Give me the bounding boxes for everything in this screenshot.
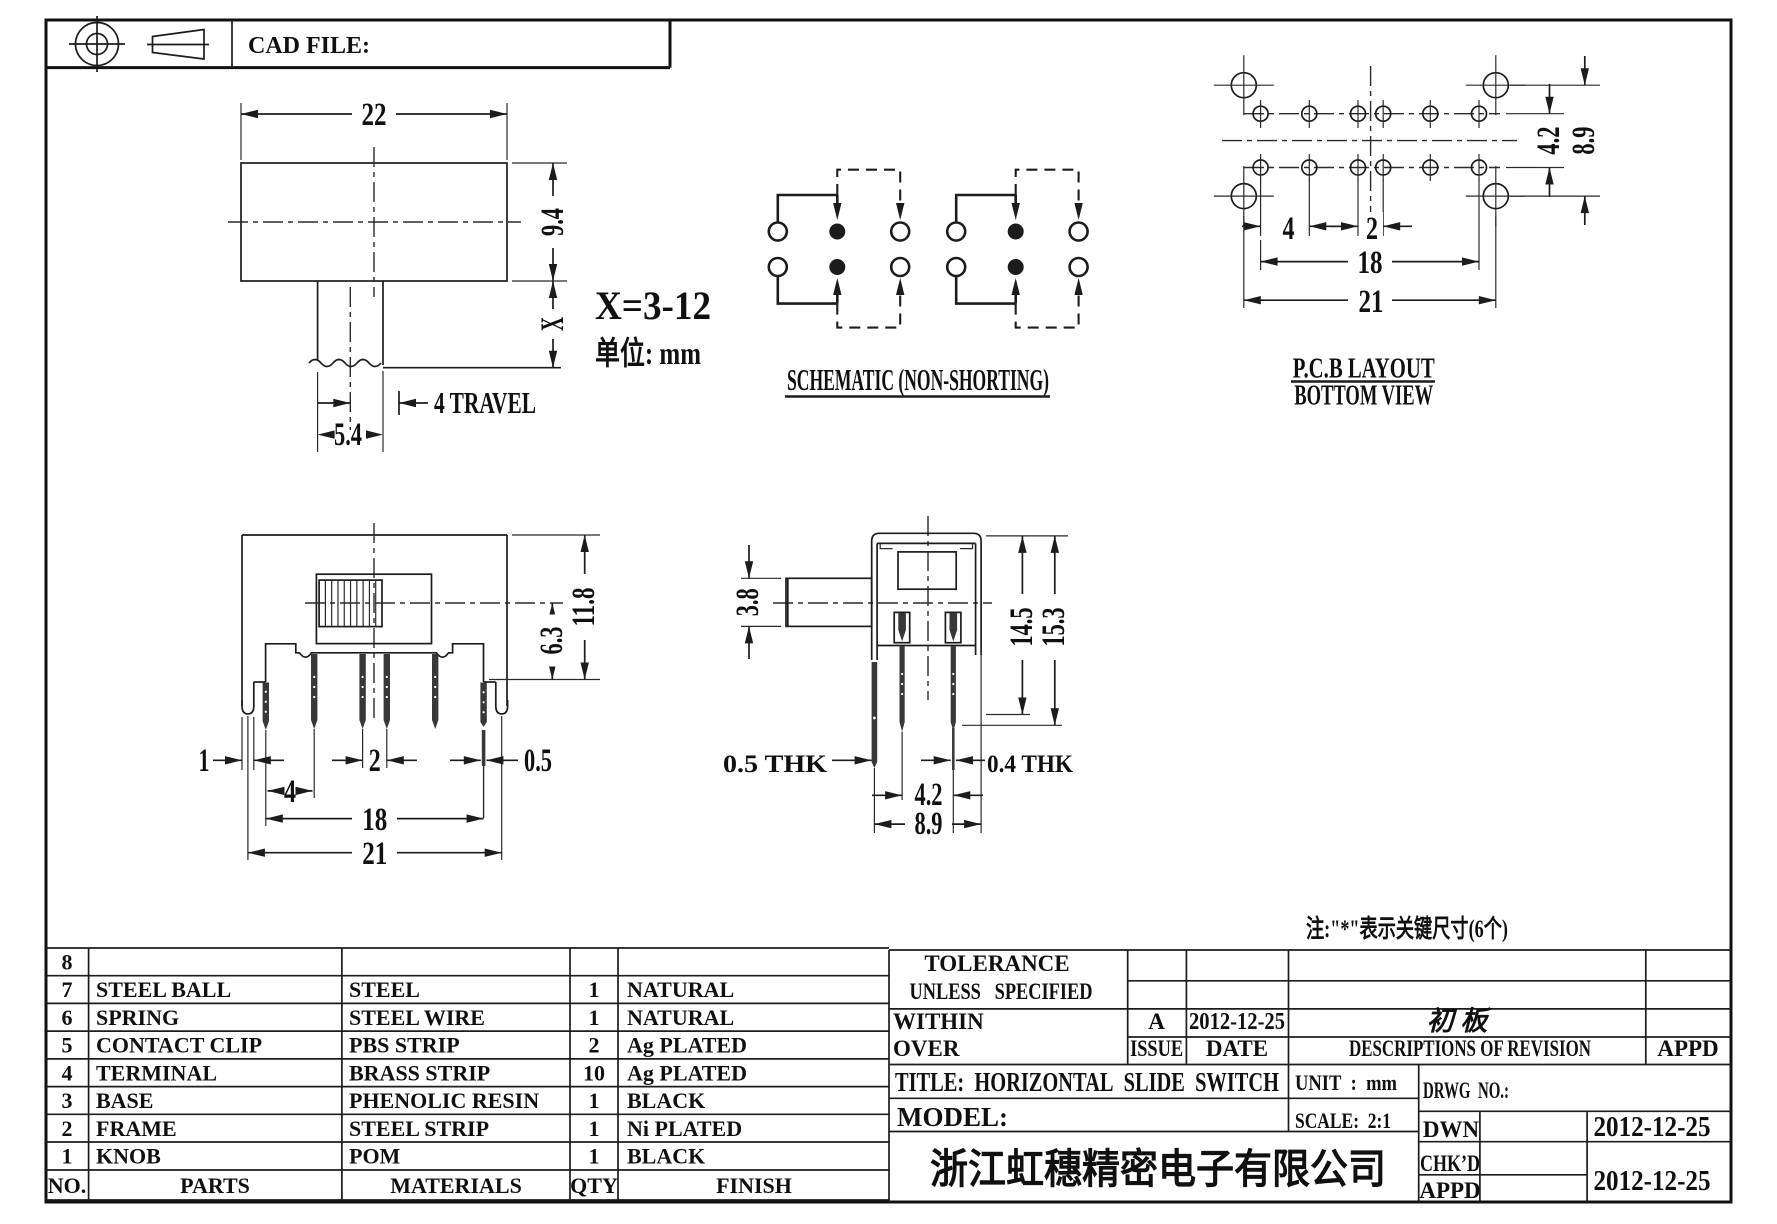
dim 5.4 line <box>318 430 335 438</box>
dim 22 line with arrows <box>241 113 507 115</box>
front view dim 4 arrows <box>268 787 285 795</box>
svg-text:PHENOLIC RESIN: PHENOLIC RESIN <box>349 1088 539 1113</box>
schematic pole: open contact circles <box>947 223 965 241</box>
top view: stem centerline <box>349 287 351 430</box>
front view dim 0.5 arrows <box>450 759 481 761</box>
front view dim 11.8 extension line <box>512 534 600 536</box>
pcb: horizontal centerline <box>1222 140 1517 142</box>
svg-text:APPD: APPD <box>1657 1036 1718 1061</box>
svg-text:3.8: 3.8 <box>730 588 766 616</box>
front view dim 21 line <box>248 852 502 854</box>
svg-text:OVER: OVER <box>893 1036 960 1061</box>
svg-text:1: 1 <box>589 1116 600 1141</box>
svg-text:QTY: QTY <box>570 1173 618 1198</box>
front view dim 1 arrows <box>213 759 242 761</box>
svg-text:BLACK: BLACK <box>627 1144 705 1169</box>
side view: contact clip housing left <box>894 612 910 642</box>
svg-text:1: 1 <box>589 1005 600 1030</box>
side view: extension lines below <box>873 768 875 833</box>
svg-text:SCALE: 2:1: SCALE: 2:1 <box>1295 1108 1391 1133</box>
pcb dim 2 label <box>1362 212 1383 238</box>
third-angle projection symbol <box>76 23 119 66</box>
0.4 THK note <box>921 759 951 761</box>
front view: metal frame profile <box>266 644 484 682</box>
pcb dim 18 extension lines <box>1260 240 1262 270</box>
schematic pole: common contacts (filled) <box>1008 224 1024 240</box>
pcb: hole row centerlines <box>1244 113 1500 115</box>
side view: right terminal (0.4 THK) <box>951 646 956 731</box>
front view: terminal pin 1 <box>263 683 269 731</box>
svg-text:2: 2 <box>62 1116 73 1141</box>
front view: left lug <box>242 682 254 714</box>
pcb dim 4.2 extension lines <box>1506 113 1564 115</box>
svg-text:1: 1 <box>199 743 210 779</box>
pcb dim 4 extension lines <box>1260 180 1262 236</box>
side view: middle terminal (0.4 THK) <box>900 646 905 732</box>
svg-text:STEEL BALL: STEEL BALL <box>96 977 231 1002</box>
schematic pole: closed position wire (top) <box>778 195 838 222</box>
schematic pole: closed position wire (bottom) <box>778 277 838 304</box>
schematic pole: open position wire dashed (bottom) <box>1016 294 1079 328</box>
svg-text:4: 4 <box>62 1060 73 1085</box>
svg-text:STEEL WIRE: STEEL WIRE <box>349 1005 485 1030</box>
dim 4.2 arrows (side view) <box>872 794 902 796</box>
front view: terminal pin 6 (long) <box>480 683 486 728</box>
svg-text:9.4: 9.4 <box>535 208 571 236</box>
svg-text:DESCRIPTIONS OF REVISION: DESCRIPTIONS OF REVISION <box>1349 1036 1591 1061</box>
side view: inner corner step left <box>880 543 892 548</box>
svg-text:SPRING: SPRING <box>96 1005 179 1030</box>
svg-text:DATE: DATE <box>1206 1036 1268 1061</box>
front view dim 6.3 extension line <box>489 679 600 681</box>
svg-text:MODEL:: MODEL: <box>897 1102 1008 1132</box>
front view: actuator body <box>316 574 431 643</box>
dim 5.4 extension lines <box>317 372 319 452</box>
top view: horizontal centerline <box>228 221 521 223</box>
dim 15.3 extension line bottom <box>962 724 1062 726</box>
svg-text:0.5: 0.5 <box>524 743 552 779</box>
side view: frame inner wall left <box>876 543 878 660</box>
pcb: terminal holes row 2 <box>1253 160 1268 175</box>
pcb: terminal holes row 1 <box>1253 106 1268 121</box>
svg-text:STEEL STRIP: STEEL STRIP <box>349 1116 489 1141</box>
side view: frame inner top <box>877 542 976 544</box>
front view: vertical centerline <box>373 523 375 722</box>
pcb: vertical centerline <box>1370 66 1372 212</box>
front view dim 18 line <box>266 818 484 820</box>
svg-text:BOTTOM VIEW: BOTTOM VIEW <box>1294 380 1433 412</box>
front view: outline top <box>242 534 507 536</box>
front view: terminal pin 4 <box>384 654 390 729</box>
svg-text:TERMINAL: TERMINAL <box>96 1060 217 1085</box>
svg-text:BRASS STRIP: BRASS STRIP <box>349 1060 490 1085</box>
svg-text:4.2: 4.2 <box>1531 127 1567 155</box>
front view: horizontal centerline <box>305 602 563 604</box>
front view: terminal pin 2 <box>311 654 317 729</box>
svg-text:X=3-12: X=3-12 <box>595 283 711 328</box>
side view: frame inner wall right <box>975 543 977 655</box>
svg-text:18: 18 <box>1358 245 1383 281</box>
dim X line <box>552 281 554 368</box>
svg-text:NO.: NO. <box>48 1173 87 1198</box>
svg-text:FRAME: FRAME <box>96 1116 177 1141</box>
svg-text:STEEL: STEEL <box>349 977 420 1002</box>
svg-text:UNIT : mm: UNIT : mm <box>1295 1070 1397 1095</box>
front view: outline left side merging into mounting lug <box>241 535 243 706</box>
schematic pole: open position wire dashed (bottom) <box>837 294 900 328</box>
svg-text:10: 10 <box>583 1060 605 1085</box>
front view dim 2 arrows <box>332 759 363 761</box>
top view: stem right edge <box>382 281 384 365</box>
svg-text:PARTS: PARTS <box>180 1173 250 1198</box>
schematic pole: closed position wire (bottom) <box>956 277 1016 304</box>
svg-text:BLACK: BLACK <box>627 1088 705 1113</box>
svg-text:CONTACT CLIP: CONTACT CLIP <box>96 1033 262 1058</box>
front view dim 6.3 line <box>551 603 553 680</box>
dim 3.8 arrows <box>748 545 750 578</box>
schematic pole: open position wire dashed (top) <box>1016 170 1079 204</box>
svg-text:22: 22 <box>362 97 387 133</box>
extension line at stem break bottom <box>383 367 561 369</box>
dim 9.4 line <box>552 163 554 281</box>
dim 9.4 extension lines <box>512 162 567 164</box>
svg-text:Ni PLATED: Ni PLATED <box>627 1116 742 1141</box>
svg-text:初 板: 初 板 <box>1427 1006 1492 1036</box>
dim 14.5 extension line top <box>986 535 1068 537</box>
svg-text:DWN: DWN <box>1423 1117 1480 1142</box>
svg-text:2: 2 <box>1366 211 1378 247</box>
title block grid <box>889 1097 1419 1099</box>
svg-text:TOLERANCE: TOLERANCE <box>924 951 1069 976</box>
svg-text:NATURAL: NATURAL <box>627 977 734 1002</box>
svg-text:NATURAL: NATURAL <box>627 1005 734 1030</box>
pcb: mounting holes with crosshairs <box>1231 73 1256 98</box>
svg-text:4 TRAVEL: 4 TRAVEL <box>434 385 536 420</box>
projection cone symbol <box>153 30 205 60</box>
svg-text:Ag PLATED: Ag PLATED <box>627 1033 747 1058</box>
pcb dim 8.9 arrows <box>1584 56 1586 85</box>
dim 14.5 line <box>1021 536 1023 715</box>
title header box (CAD FILE) <box>46 66 670 69</box>
svg-text:18: 18 <box>362 802 387 838</box>
side view: contact clip housing right <box>945 612 961 642</box>
svg-text:BASE: BASE <box>96 1088 153 1113</box>
pcb dim 2 extension lines <box>1357 180 1359 236</box>
svg-text:SCHEMATIC (NON-SHORTING): SCHEMATIC (NON-SHORTING) <box>787 362 1049 397</box>
svg-text:14.5: 14.5 <box>1004 608 1040 647</box>
schematic pole: open position wire dashed (top) <box>837 170 900 204</box>
pcb dim 18 line <box>1261 261 1479 263</box>
pcb dim 8.9 extension lines <box>1510 84 1600 86</box>
svg-text:5: 5 <box>62 1033 73 1058</box>
svg-text:MATERIALS: MATERIALS <box>390 1173 522 1198</box>
side view: knob stem <box>786 578 872 626</box>
svg-text:FINISH: FINISH <box>716 1173 792 1198</box>
svg-text:8.9: 8.9 <box>1566 127 1602 155</box>
top view: break (wavy) line <box>309 360 381 367</box>
pcb dim 21 line <box>1244 299 1496 301</box>
side view: right wall lower edge <box>980 655 982 715</box>
svg-text:11.8: 11.8 <box>566 588 602 627</box>
svg-text:X: X <box>535 317 571 331</box>
dim 3.8 extension lines <box>741 577 781 579</box>
svg-text:TITLE: HORIZONTAL SLIDE SWI: TITLE: HORIZONTAL SLIDE SWITCH <box>895 1067 1279 1097</box>
front view: knurled knob <box>319 580 382 627</box>
front view: right lug <box>496 682 508 714</box>
front view: left lug step <box>254 681 266 683</box>
dim 15.3 line <box>1054 536 1056 725</box>
svg-text:3: 3 <box>62 1088 73 1113</box>
svg-text:2: 2 <box>589 1033 600 1058</box>
svg-text:ISSUE: ISSUE <box>1130 1036 1183 1061</box>
svg-text:KNOB: KNOB <box>96 1144 161 1169</box>
dim 8.9 line (side view) <box>874 823 981 825</box>
front view dim 11.8 line <box>584 535 586 680</box>
svg-text:2: 2 <box>369 743 381 779</box>
svg-text:UNLESS SPECIFIED: UNLESS SPECIFIED <box>910 979 1093 1004</box>
side view: horizontal centerline <box>773 602 992 604</box>
svg-text:2012-12-25: 2012-12-25 <box>1189 1009 1285 1035</box>
svg-text:4: 4 <box>284 774 296 810</box>
svg-text:15.3: 15.3 <box>1036 608 1072 647</box>
top view: stem left edge <box>317 281 319 360</box>
svg-text:APPD: APPD <box>1419 1178 1480 1203</box>
svg-text:1: 1 <box>62 1144 73 1169</box>
svg-text:1: 1 <box>589 1144 600 1169</box>
dim 22 extension lines <box>240 103 242 160</box>
front view: right lug step <box>484 681 496 683</box>
pcb dim 21 extension lines <box>1243 216 1245 308</box>
side view: contact pin inside right housing <box>950 613 958 642</box>
svg-text:8: 8 <box>62 950 73 975</box>
svg-text:8.9: 8.9 <box>915 806 943 842</box>
svg-text:CAD FILE:: CAD FILE: <box>248 33 370 59</box>
pcb dim 2 arrows <box>1330 225 1358 227</box>
svg-text:21: 21 <box>362 836 387 872</box>
pcb dim 4.2 label <box>1536 115 1564 167</box>
top view: vertical centerline <box>373 147 375 297</box>
top view: knob body rectangle <box>241 163 507 281</box>
pcb dim 4 arrows <box>1242 225 1261 227</box>
front view: outline right side <box>506 535 508 706</box>
side view: frame outer shell <box>872 533 981 660</box>
4 TRAVEL dimension <box>318 402 350 404</box>
svg-text:0.4 THK: 0.4 THK <box>987 751 1074 778</box>
svg-text:A: A <box>1148 1009 1165 1034</box>
front view: terminal pin 3 <box>359 654 365 729</box>
svg-text:POM: POM <box>349 1144 401 1169</box>
svg-text:0.5 THK: 0.5 THK <box>723 751 828 778</box>
side view: frame side tab (0.5 THK) <box>872 662 878 768</box>
tolerance-revision block grid <box>889 949 1731 951</box>
svg-text:注:"*"表示关键尺寸(6个): 注:"*"表示关键尺寸(6个) <box>1306 914 1508 943</box>
svg-text:6.3: 6.3 <box>534 627 570 655</box>
pcb dim 8.9 label <box>1571 115 1599 167</box>
svg-text:CHK’D: CHK’D <box>1420 1151 1480 1176</box>
parts table grid <box>46 947 889 949</box>
svg-text:Ag PLATED: Ag PLATED <box>627 1060 747 1085</box>
svg-text:1: 1 <box>589 1088 600 1113</box>
svg-text:浙江虹穗精密电子有限公司: 浙江虹穗精密电子有限公司 <box>930 1146 1386 1192</box>
pcb dim 4.2 arrows <box>1549 84 1551 114</box>
svg-text:1: 1 <box>589 977 600 1002</box>
svg-text:6: 6 <box>62 1005 73 1030</box>
side view: vertical centerline <box>927 516 929 700</box>
front view: extension lines below pins <box>265 730 267 826</box>
dim 14.5 extension line bottom <box>986 714 1030 716</box>
schematic pole: open contact circles <box>769 223 787 241</box>
side view: base bottom line <box>877 645 976 647</box>
schematic pole: common contacts (filled) <box>829 224 845 240</box>
side view: contact pin inside left housing <box>898 613 906 642</box>
svg-text:DRWG NO.:: DRWG NO.: <box>1423 1078 1509 1103</box>
svg-text:5.4: 5.4 <box>334 417 362 453</box>
side view: inner corner step right <box>960 543 972 548</box>
svg-text:WITHIN: WITHIN <box>893 1009 984 1034</box>
svg-text:2012-12-25: 2012-12-25 <box>1594 1112 1711 1143</box>
schematic pole: closed position wire (top) <box>956 195 1016 222</box>
svg-text:PBS STRIP: PBS STRIP <box>349 1033 460 1058</box>
svg-text:4: 4 <box>1283 211 1295 247</box>
side view: knob window <box>898 552 956 589</box>
svg-text:7: 7 <box>62 977 73 1002</box>
svg-text:21: 21 <box>1359 284 1384 320</box>
svg-text:单位: mm: 单位: mm <box>595 335 701 371</box>
front view: terminal pin 5 <box>432 654 438 729</box>
svg-text:2012-12-25: 2012-12-25 <box>1594 1166 1711 1197</box>
